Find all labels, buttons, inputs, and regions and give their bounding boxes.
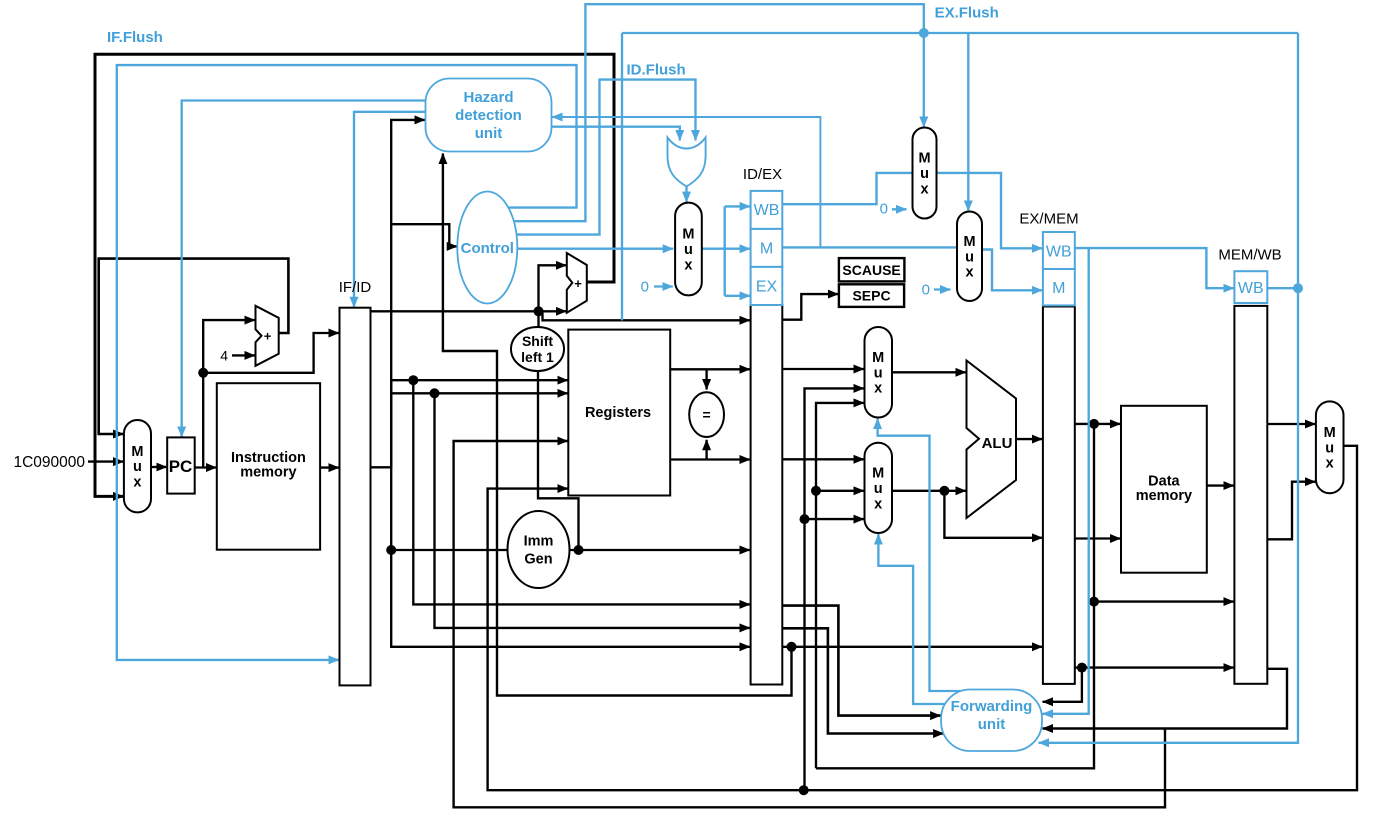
pipeline register MEM/WB [1234, 306, 1267, 684]
svg-text:x: x [684, 257, 692, 273]
svg-text:left 1: left 1 [521, 349, 554, 365]
wire shift output into shift ellipse [537, 311, 539, 327]
svg-text:SEPC: SEPC [852, 288, 890, 304]
wire riser to branch adder upper input [539, 265, 567, 311]
wire ID/EX M to Mux2 [782, 246, 958, 248]
wire control M to ID/EX [725, 247, 750, 249]
wire MEM/WB rd to Forwarding unit [1043, 669, 1288, 729]
wire EX/MEM ALU result to Data memory [1075, 423, 1121, 425]
wire EX/MEM rd to MEM/WB [1075, 666, 1234, 668]
register SCAUSE [839, 258, 905, 281]
wire PC out to Instruction memory [195, 466, 217, 468]
svg-text:unit: unit [978, 716, 1006, 733]
wire ForwardB control to MuxB [878, 534, 948, 704]
mux Mux2 M flush [957, 212, 982, 302]
mux MuxR write-back [1316, 401, 1344, 493]
wire control bundle vertical [724, 206, 726, 295]
wire control EX to ID/EX [725, 295, 750, 297]
wire rs1 field down to ID/EX [413, 380, 750, 604]
wire Imm Gen output to ID/EX [570, 549, 751, 551]
mux Mux1 WB flush [913, 128, 937, 219]
wire rd loop to hazard detection [443, 154, 792, 696]
wire EX/MEM ALU result down to forwarding muxes [816, 602, 1094, 769]
wire Mux0 out to PC [151, 466, 167, 468]
svg-text:Control: Control [461, 240, 514, 257]
op ALU [967, 361, 1017, 519]
wire read data 1 to comparator [705, 369, 707, 389]
wire IF.Flush from Control to IF/ID [117, 65, 577, 660]
junction rs2 [430, 388, 440, 398]
wire EX/MEM value to MuxA in3 [816, 403, 864, 768]
svg-text:M: M [1324, 425, 1336, 441]
svg-text:x: x [133, 475, 141, 491]
junction PC value [198, 368, 208, 378]
svg-text:Shift: Shift [522, 333, 553, 349]
svg-text:Registers: Registers [585, 405, 651, 421]
wire ID/EX WB to Mux1 [782, 173, 913, 204]
svg-text:M: M [760, 241, 773, 258]
wire ForwardA control to MuxA [878, 419, 965, 692]
block Registers [568, 330, 670, 496]
junction ALU result [1089, 419, 1099, 429]
wire read data 2 to comparator [705, 440, 707, 460]
junction EX/MEM rd [1077, 663, 1087, 673]
block Data memory [1121, 406, 1207, 573]
wire MEM/WB rd to Registers write register [454, 441, 1165, 807]
wire EX/MEM write data to Data memory [1075, 537, 1121, 539]
junction rd [787, 642, 797, 652]
svg-text:M: M [1052, 280, 1065, 297]
wire ID.Flush from Control to OR gate [516, 80, 696, 235]
wire rd field down around to ID/EX [391, 550, 750, 647]
junction write data tap [939, 486, 949, 496]
block Instruction memory [217, 383, 320, 550]
wire PC+4: adder1 out to Mux0 in1 [99, 259, 289, 434]
svg-text:u: u [133, 459, 142, 475]
svg-text:u: u [874, 365, 883, 381]
wire EX.Flush to Mux2 [967, 33, 969, 211]
svg-text:x: x [874, 381, 882, 397]
op block Control [457, 192, 517, 304]
svg-text:M: M [918, 151, 930, 167]
wire EX/MEM RegWrite to Forwarding unit [1043, 248, 1089, 714]
svg-text:M: M [872, 350, 884, 366]
wire ID/EX PC out to SEPC [782, 294, 838, 320]
svg-text:u: u [684, 242, 693, 258]
block Hazard detection unit [426, 79, 552, 152]
wire rd from ID/EX to EX/MEM [782, 646, 1042, 648]
op adder branch target [567, 253, 587, 313]
svg-text:u: u [965, 249, 974, 265]
svg-text:=: = [703, 407, 711, 423]
wire MEM/WB read data to MuxR [1267, 423, 1315, 425]
junction WB value to MuxB [800, 514, 810, 524]
junction EX/MEM value to MuxB [811, 486, 821, 496]
svg-text:IF.Flush: IF.Flush [107, 29, 163, 46]
register EX/MEM M box [1043, 269, 1075, 305]
op adder PC+4 [256, 306, 279, 366]
svg-text:MEM/WB: MEM/WB [1218, 247, 1281, 264]
svg-text:IF/ID: IF/ID [339, 279, 372, 296]
junction write-back data [799, 785, 809, 795]
svg-text:memory: memory [240, 465, 296, 481]
wire PC value to IF/ID [203, 333, 339, 373]
mux MuxB forward B [865, 443, 893, 533]
svg-text:Imm: Imm [524, 534, 554, 550]
pipeline register IF/ID [340, 308, 371, 686]
wire ALU result to EX/MEM [1016, 438, 1042, 440]
wire EX.Flush line left drop [621, 33, 623, 320]
op Shift left 1 [511, 327, 564, 371]
junction imm gen input [386, 545, 396, 555]
register ID/EX M box [751, 229, 783, 267]
register ID/EX EX box [751, 267, 783, 305]
wire EX/MEM value to MuxB in2 [816, 490, 864, 492]
wire Mux2 out to EX/MEM M [981, 250, 1042, 291]
wire Mux1 out to EX/MEM WB [936, 173, 1043, 248]
svg-text:4: 4 [220, 348, 228, 364]
wire MuxB out to ALU [892, 490, 966, 492]
svg-text:EX/MEM: EX/MEM [1019, 211, 1078, 228]
wire ID/EX rs2 to Forwarding unit [782, 628, 943, 733]
svg-text:EX: EX [756, 279, 778, 296]
wire PC to ID/EX [539, 311, 751, 320]
wire write data to EX/MEM [944, 491, 1042, 538]
svg-text:M: M [963, 234, 975, 250]
svg-text:+: + [264, 329, 272, 344]
block Forwarding unit [941, 690, 1042, 752]
wire EX/MEM WB to MEM/WB WB [1075, 248, 1234, 288]
wire Data memory read data to MEM/WB [1207, 484, 1234, 486]
svg-text:0: 0 [880, 201, 888, 218]
junction branch path [534, 306, 544, 316]
wire Imm Gen output up to Shift left 1 [538, 371, 579, 546]
wire WB value to MuxA in2 [805, 388, 865, 790]
wire EX/MEM rd to Forwarding unit [1043, 668, 1082, 702]
svg-text:PC: PC [169, 457, 193, 476]
wire Hazard PCWrite to PC [182, 101, 426, 437]
wire read register 1 [391, 379, 568, 381]
svg-text:unit: unit [475, 125, 503, 142]
wire branch-target: adder2 out via top frame to Mux0 in3 [95, 54, 614, 496]
wire Hazard IF/ID write [354, 112, 426, 307]
svg-text:x: x [874, 496, 882, 512]
svg-text:ID/EX: ID/EX [743, 166, 782, 183]
pipeline register ID/EX [751, 305, 783, 685]
wire zero mux out distribution [702, 247, 725, 249]
wire EX.Flush distribution line [622, 32, 1298, 34]
op Imm Gen [508, 511, 570, 588]
wire Control to zero mux [517, 247, 673, 249]
svg-text:EX.Flush: EX.Flush [935, 5, 999, 22]
svg-text:+: + [574, 276, 582, 291]
svg-text:WB: WB [1046, 244, 1072, 261]
wire 0 constant to Mux2 [934, 288, 951, 290]
pipeline register EX/MEM [1043, 307, 1075, 684]
svg-text:Forwarding: Forwarding [951, 698, 1033, 715]
wire MuxA out to ALU [892, 371, 966, 373]
wire 0 constant to Mux1 [892, 208, 907, 210]
wire ID/EX rs1 to Forwarding unit [782, 606, 940, 716]
wire exception vector 1C090000 to Mux0 in2 [88, 460, 124, 462]
mux Mux0 PC source [124, 420, 151, 512]
svg-text:1C090000: 1C090000 [13, 454, 85, 471]
wire OR gate to Mux control-zero [685, 187, 687, 203]
svg-text:x: x [965, 265, 973, 281]
mux zero control [675, 203, 702, 296]
svg-text:Gen: Gen [524, 552, 552, 568]
junction imm out [574, 545, 584, 555]
svg-text:M: M [131, 444, 143, 460]
wire rs2 field down to ID/EX [435, 393, 751, 628]
wire MEM/WB ALU result to MuxR [1267, 482, 1315, 540]
wire read register 2 [391, 392, 568, 394]
svg-text:u: u [874, 481, 883, 497]
wire ID/EX.MemRead to Hazard detection unit [552, 117, 820, 247]
svg-text:detection: detection [455, 107, 522, 124]
junction rs1 [408, 375, 418, 385]
wire instruction down to Imm Gen [391, 380, 507, 550]
wire control WB to ID/EX [725, 205, 750, 207]
wire ALU result down to MEM/WB [1094, 424, 1234, 602]
svg-text:WB: WB [754, 202, 780, 219]
wire read data 1 to ID/EX [670, 368, 750, 370]
wire instruction bus from IF/ID up to Hazard detection unit [371, 120, 426, 467]
register ID/EX WB box [751, 191, 783, 229]
svg-text:M: M [872, 466, 884, 482]
register PC [167, 437, 195, 493]
wire WB value to MuxB in3 [805, 518, 865, 520]
wire MEM/WB WB out [1267, 287, 1298, 289]
wire EX.Flush line right drop to MEM/WB WB [1297, 33, 1299, 288]
gate OR flush [668, 138, 706, 187]
wire EX.Flush from Control to Mux1 [514, 4, 924, 221]
junction EX.Flush [919, 28, 929, 38]
wire instruction to Control [391, 224, 457, 246]
svg-text:ALU: ALU [982, 435, 1013, 452]
svg-text:WB: WB [1238, 280, 1264, 297]
register SEPC [839, 284, 904, 307]
wire 0 constant to zero mux [654, 285, 673, 287]
junction MEM/WB RegWrite [1293, 283, 1303, 293]
wire constant 4 to adder1 lower input [232, 354, 255, 356]
wire ID/EX read data 2 to MuxB [782, 458, 864, 460]
svg-text:u: u [1325, 440, 1334, 456]
svg-text:x: x [1326, 456, 1334, 472]
wire Instruction memory to IF/ID [320, 466, 339, 468]
svg-text:u: u [920, 166, 929, 182]
register MEM/WB WB box [1234, 271, 1267, 303]
wire Hazard stall to OR gate [552, 127, 680, 141]
wire ID/EX read data 1 to MuxA [782, 368, 864, 370]
wire IF/ID PC to branch adder lower input [371, 310, 567, 312]
junction ALU result to MEM/WB [1089, 597, 1099, 607]
svg-text:SCAUSE: SCAUSE [842, 262, 900, 278]
mux MuxA forward A [865, 327, 893, 418]
svg-text:ID.Flush: ID.Flush [627, 62, 686, 79]
svg-text:0: 0 [922, 282, 930, 299]
wire MEM/WB RegWrite to Forwarding unit [1039, 288, 1299, 743]
svg-text:x: x [920, 181, 928, 197]
svg-text:Hazard: Hazard [463, 89, 513, 106]
register EX/MEM WB box [1043, 232, 1075, 269]
svg-text:memory: memory [1136, 488, 1192, 504]
comparator = [689, 392, 724, 437]
wire PC value riser to adder1 upper input [203, 320, 255, 467]
wire write-back data loop from MuxR to Registers write data [488, 446, 1357, 790]
wire read data 2 to ID/EX [670, 458, 750, 460]
svg-text:0: 0 [641, 279, 649, 296]
svg-text:M: M [682, 227, 694, 243]
